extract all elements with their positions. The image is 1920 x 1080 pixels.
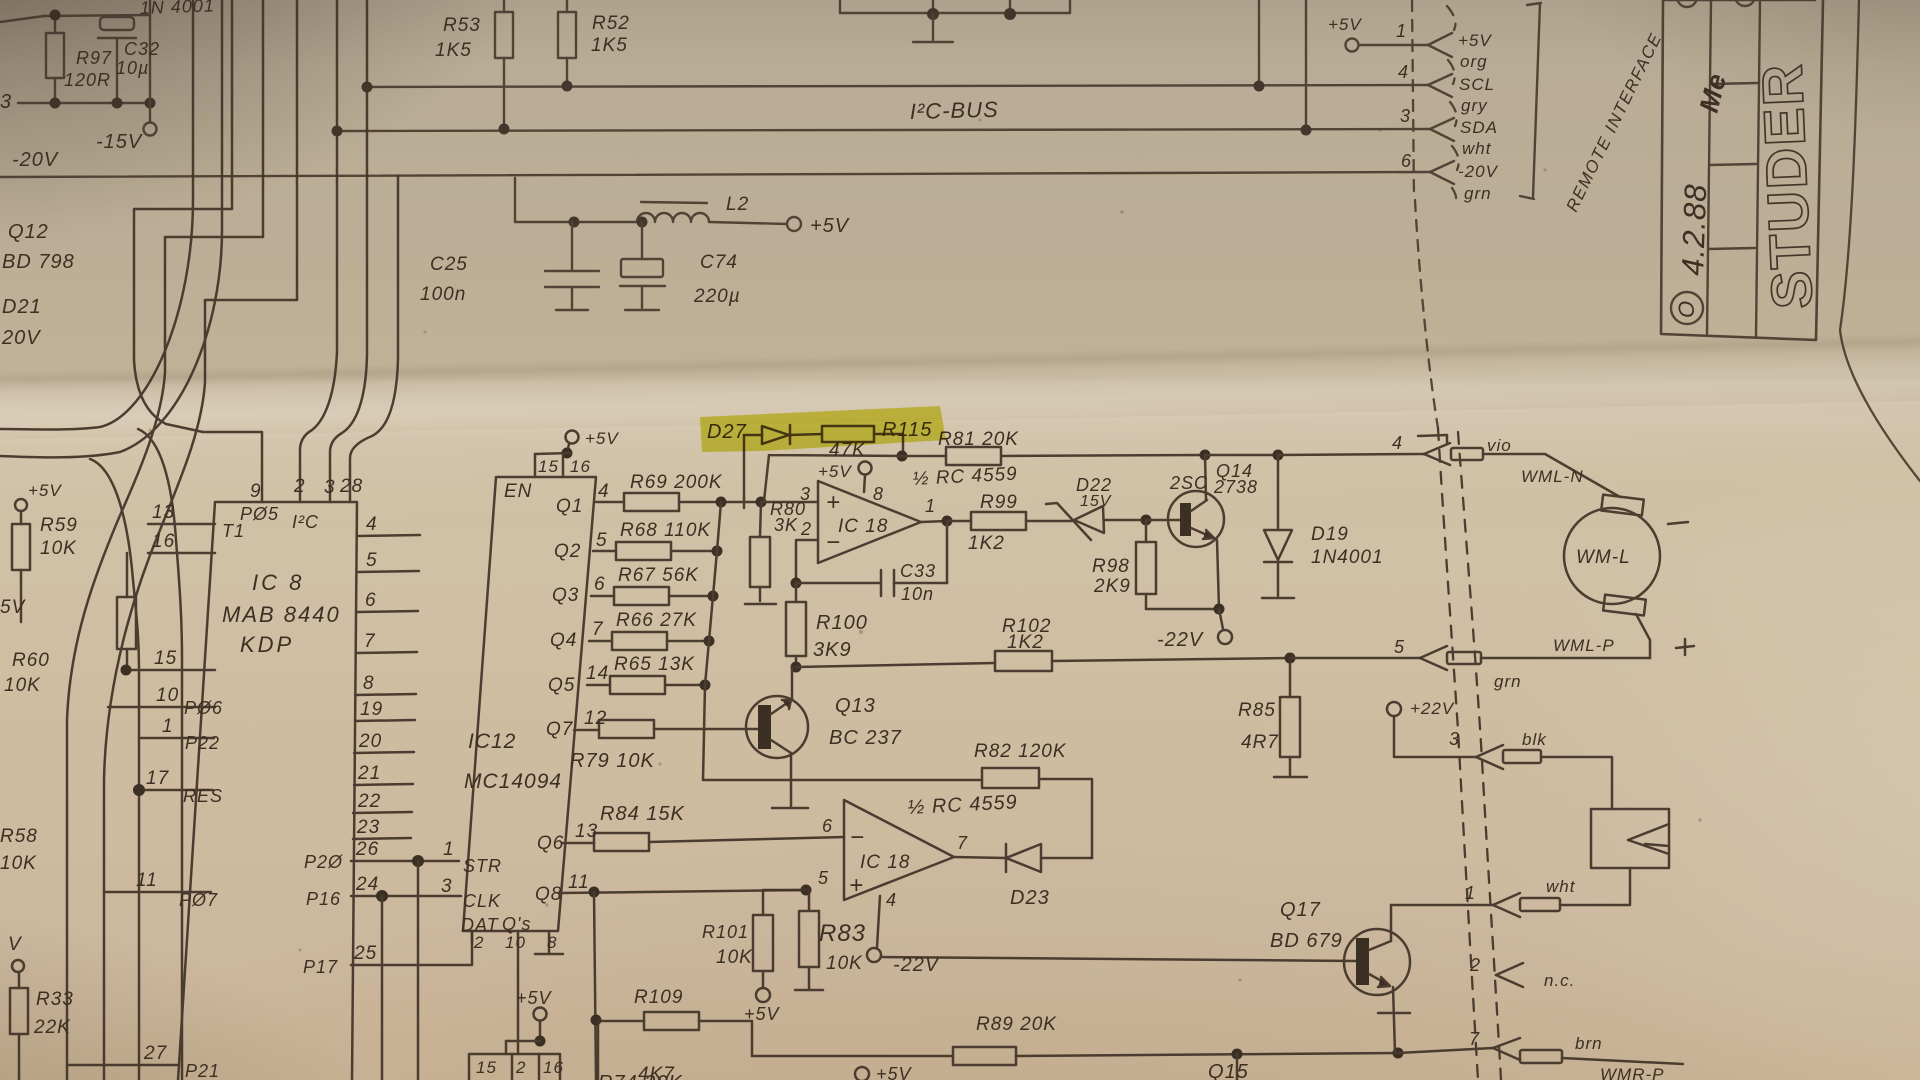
inductor L2	[641, 202, 707, 203]
motor WM-L	[1601, 495, 1644, 516]
svg-text:4: 4	[886, 890, 897, 910]
svg-text:120R: 120R	[64, 70, 111, 90]
resistor R99	[947, 520, 971, 523]
svg-text:R97: R97	[76, 48, 112, 68]
svg-text:-22V: -22V	[1157, 629, 1204, 651]
svg-text:4: 4	[598, 481, 610, 502]
svg-text:STR: STR	[463, 856, 502, 876]
svg-text:23: 23	[356, 817, 380, 838]
svg-text:R67 56K: R67 56K	[618, 565, 699, 586]
svg-text:6: 6	[822, 816, 833, 836]
svg-text:R66 27K: R66 27K	[616, 610, 697, 631]
svg-text:−: −	[850, 824, 865, 851]
paper specks	[149, 119, 1702, 982]
resistor R100	[786, 602, 806, 656]
wire R102 line to pin 5	[796, 663, 995, 667]
svg-text:20: 20	[358, 731, 382, 752]
IC8 pin 24 line P16 to IC12 CLK	[351, 895, 461, 898]
svg-text:SDA: SDA	[1460, 118, 1498, 137]
title block divider 1	[1707, 0, 1711, 335]
svg-text:R101: R101	[702, 922, 749, 942]
svg-text:C74: C74	[700, 252, 738, 273]
svg-text:2: 2	[473, 933, 484, 952]
IC8 pin 10 stub P06	[108, 706, 215, 709]
top-center box bottom with grounds	[839, 0, 841, 13]
wire I2C bus line 1 (SCL rail)	[367, 85, 1428, 87]
svg-text:IC12: IC12	[468, 730, 516, 753]
svg-text:2K9: 2K9	[1093, 576, 1131, 597]
svg-text:13: 13	[152, 502, 175, 523]
svg-text:6: 6	[365, 590, 377, 611]
wire staircase W1 to IC8 pin 9	[134, 0, 262, 502]
switch box (motor limit)	[1591, 809, 1669, 868]
resistor R28	[117, 597, 136, 649]
svg-text:2SC: 2SC	[1169, 473, 1208, 493]
svg-text:4.2.88: 4.2.88	[1675, 183, 1713, 276]
svg-text:+22V: +22V	[1410, 699, 1455, 718]
ground (R83)	[795, 989, 823, 992]
svg-text:3K9: 3K9	[813, 639, 852, 661]
svg-text:1: 1	[925, 496, 936, 516]
svg-text:2: 2	[800, 519, 812, 539]
svg-text:7: 7	[1469, 1029, 1480, 1049]
svg-text:16: 16	[152, 531, 175, 552]
connector pin 7 brn	[1493, 1038, 1520, 1048]
IC8 pin 27 stub P21	[67, 1064, 179, 1067]
svg-text:D22: D22	[1076, 475, 1112, 495]
svg-text:12: 12	[584, 708, 607, 729]
svg-text:R98: R98	[1092, 556, 1130, 577]
svg-text:wht: wht	[1462, 139, 1492, 158]
svg-text:O: O	[1674, 300, 1699, 318]
wire -20V rail to pin 6	[0, 172, 1430, 177]
svg-text:100n: 100n	[420, 284, 466, 305]
node +22V terminal	[1387, 702, 1401, 716]
svg-text:PØ5: PØ5	[240, 504, 279, 524]
title block revision circle O	[1671, 292, 1703, 324]
svg-text:n.c.: n.c.	[1544, 971, 1575, 990]
svg-text:+: +	[826, 489, 841, 516]
wire op2 pin 5 node	[763, 890, 806, 915]
node -22V terminal (Q14)	[1219, 609, 1223, 629]
svg-text:R89 20K: R89 20K	[976, 1014, 1057, 1035]
ground (C25)	[556, 309, 588, 311]
svg-text:8: 8	[873, 484, 884, 504]
wire top-left to R97	[0, 16, 44, 22]
svg-text:3: 3	[1400, 106, 1411, 126]
ground (top-center)	[932, 14, 934, 40]
svg-text:1K5: 1K5	[435, 40, 472, 61]
svg-text:5V: 5V	[0, 597, 27, 618]
svg-text:STUDER: STUDER	[1750, 61, 1825, 310]
svg-text:2738: 2738	[1213, 477, 1258, 497]
resistor R67	[591, 595, 614, 598]
svg-text:15: 15	[476, 1058, 497, 1077]
ground (R80)	[745, 603, 776, 606]
svg-text:wht: wht	[1546, 877, 1576, 896]
svg-text:R84 15K: R84 15K	[600, 803, 685, 825]
svg-text:3K: 3K	[774, 515, 798, 535]
svg-text:BD 679: BD 679	[1270, 930, 1343, 952]
svg-text:R59: R59	[40, 515, 78, 536]
svg-text:R79 10K: R79 10K	[570, 750, 655, 772]
node +5V (Q15 area)	[855, 1067, 869, 1080]
svg-text:4: 4	[366, 514, 378, 535]
svg-text:I²C: I²C	[292, 512, 319, 532]
svg-text:Q3: Q3	[552, 585, 579, 606]
wire vertical to left edge line D	[0, 0, 222, 1080]
IC8 right pin stubs 4,5,6,7,8,19,20,21,22,23	[357, 535, 420, 536]
IC8 pin 15 stub	[126, 669, 215, 672]
svg-text:13: 13	[575, 821, 598, 842]
svg-text:+5V: +5V	[810, 215, 850, 237]
resistor R53	[495, 12, 513, 58]
svg-text:26: 26	[355, 839, 379, 860]
svg-text:+5V: +5V	[585, 429, 619, 448]
svg-text:22: 22	[357, 791, 381, 812]
capacitor C25	[571, 222, 573, 271]
svg-text:Q7: Q7	[546, 719, 574, 740]
svg-text:15V: 15V	[1080, 493, 1112, 510]
svg-text:R85: R85	[1238, 700, 1276, 721]
svg-text:R99: R99	[980, 492, 1018, 513]
svg-text:8: 8	[363, 673, 375, 694]
dashed board edge lines	[1438, 428, 1501, 1080]
wire W2 to IC8 pin 2	[300, 0, 337, 502]
resistor R33	[18, 972, 21, 988]
svg-text:-20V: -20V	[1458, 162, 1499, 181]
svg-text:R53: R53	[443, 15, 481, 36]
svg-text:BC 237: BC 237	[829, 727, 902, 749]
wire sweep A to bottom left	[67, 0, 263, 1080]
svg-text:org: org	[1460, 52, 1488, 71]
svg-text:Q's: Q's	[502, 914, 531, 934]
resistor R97	[46, 33, 64, 78]
svg-text:MC14094: MC14094	[464, 770, 562, 793]
svg-text:10K: 10K	[716, 947, 753, 968]
svg-text:Q5: Q5	[548, 675, 575, 696]
resistor R69	[596, 501, 624, 504]
IC12 pin 2 DAT elbow	[471, 931, 474, 942]
connector pin 2 n.c.	[1496, 963, 1523, 975]
title block row lines	[1710, 83, 1757, 84]
svg-text:Q15: Q15	[1208, 1061, 1249, 1080]
svg-text:R74 20K: R74 20K	[598, 1072, 683, 1080]
wire vertical to left edge line C	[0, 0, 193, 1080]
connector REMOTE pin 1 +5V	[1346, 39, 1359, 52]
title block outer frame	[1661, 0, 1823, 340]
svg-text:7: 7	[957, 833, 968, 853]
resistor R68	[593, 550, 616, 553]
svg-text:+5V: +5V	[1458, 31, 1492, 50]
svg-text:3: 3	[1449, 729, 1460, 749]
svg-text:4: 4	[1398, 62, 1409, 82]
connector dashed body	[1412, 0, 1459, 428]
svg-text:1K2: 1K2	[968, 533, 1005, 554]
svg-text:8: 8	[547, 933, 557, 952]
IC12 +5V top bracket pins 15/16	[566, 431, 579, 444]
svg-text:DAT: DAT	[461, 915, 500, 935]
capacitor C74 (electrolytic)	[641, 222, 643, 259]
connector pin 3 blk	[1476, 745, 1503, 757]
svg-text:T1: T1	[222, 521, 245, 541]
svg-text:220µ: 220µ	[693, 286, 741, 307]
svg-text:P21: P21	[185, 1061, 220, 1080]
resistor R83	[808, 890, 811, 911]
svg-text:grn: grn	[1464, 184, 1492, 203]
svg-text:15: 15	[538, 457, 559, 476]
svg-text:Q12: Q12	[8, 221, 49, 243]
svg-text:9: 9	[250, 481, 262, 502]
svg-text:R52: R52	[592, 13, 630, 34]
svg-text:R83: R83	[819, 920, 866, 947]
wire I2C bus line 2 (SDA rail)	[337, 129, 1430, 131]
wire Q8 pin 11 line	[560, 890, 806, 893]
zener D22	[1074, 506, 1104, 533]
wire L2 left to C25/C74	[515, 221, 637, 223]
svg-text:P2Ø: P2Ø	[304, 852, 343, 872]
resistor R109	[598, 1020, 644, 1023]
svg-text:R69 200K: R69 200K	[630, 472, 723, 493]
svg-text:V: V	[8, 934, 23, 955]
tiny circle top row	[1677, 0, 1697, 7]
minus plus marks	[1668, 522, 1688, 524]
svg-text:1K2: 1K2	[1007, 632, 1044, 653]
op2 output diode D23	[954, 857, 1006, 858]
wire W3 to IC8 pin 3	[330, 0, 367, 502]
svg-text:10µ: 10µ	[116, 58, 149, 78]
svg-text:C32: C32	[124, 39, 160, 59]
svg-text:1: 1	[162, 716, 174, 737]
svg-text:10: 10	[505, 933, 526, 952]
svg-text:7: 7	[592, 619, 604, 640]
svg-text:MAB 8440: MAB 8440	[222, 602, 341, 627]
svg-text:10K: 10K	[4, 675, 41, 696]
svg-text:6: 6	[594, 574, 606, 595]
svg-text:½ RC 4559: ½ RC 4559	[907, 791, 1018, 819]
svg-text:CLK: CLK	[463, 891, 501, 911]
svg-text:10n: 10n	[901, 584, 934, 604]
svg-text:P22: P22	[185, 733, 220, 753]
svg-text:R58: R58	[0, 826, 38, 847]
svg-text:+5V: +5V	[876, 1064, 913, 1080]
svg-text:+5V: +5V	[818, 462, 852, 481]
wire R82 line	[703, 779, 982, 782]
resistor R102	[995, 651, 1052, 671]
svg-text:3: 3	[324, 477, 336, 498]
svg-text:5: 5	[1394, 637, 1405, 657]
svg-text:KDP: KDP	[240, 632, 294, 657]
svg-text:grn: grn	[1494, 672, 1522, 691]
wire junction row under R97/C32	[18, 102, 150, 104]
svg-text:4R7: 4R7	[1241, 732, 1279, 753]
svg-text:P16: P16	[306, 889, 341, 909]
svg-text:+5V: +5V	[1328, 15, 1362, 34]
svg-text:Q13: Q13	[835, 695, 876, 717]
svg-text:D23: D23	[1010, 887, 1050, 909]
svg-text:10: 10	[156, 685, 179, 706]
svg-text:IC 8: IC 8	[252, 570, 304, 595]
resistor R82	[982, 768, 1039, 788]
svg-text:Q17: Q17	[1280, 899, 1321, 921]
wire W4 to IC8 pin 28	[350, 176, 398, 502]
IC12 pin 10 drop	[517, 931, 520, 1054]
IC box below IC12 pins 15/2/16	[469, 1054, 560, 1080]
svg-text:1N 4001: 1N 4001	[139, 0, 215, 18]
svg-text:WM-L: WM-L	[1576, 547, 1631, 568]
svg-text:Q1: Q1	[556, 496, 583, 517]
svg-text:L2: L2	[726, 194, 749, 215]
IC8 pin 16 stub	[148, 552, 215, 555]
capacitor C33	[791, 578, 802, 589]
svg-text:blk: blk	[1522, 730, 1547, 749]
svg-text:28: 28	[339, 476, 363, 497]
connector pin 6 -20V	[1430, 161, 1454, 172]
resistor R84	[563, 842, 594, 845]
diode D19	[1277, 455, 1280, 530]
svg-text:Q2: Q2	[554, 541, 581, 562]
connector pin 5 grn	[1420, 646, 1447, 658]
svg-text:1N4001: 1N4001	[1311, 547, 1384, 568]
svg-text:-22V: -22V	[893, 954, 940, 976]
wire summing rail down to R82 line	[703, 502, 721, 780]
svg-text:gry: gry	[1461, 96, 1488, 115]
svg-text:3: 3	[0, 91, 12, 113]
svg-text:1: 1	[1465, 883, 1476, 903]
svg-text:WMR-P: WMR-P	[1600, 1065, 1664, 1080]
svg-text:16: 16	[543, 1058, 564, 1077]
svg-text:WML-P: WML-P	[1553, 636, 1615, 655]
svg-text:+: +	[849, 872, 864, 899]
svg-text:1: 1	[443, 839, 455, 860]
resistor R101	[753, 915, 773, 971]
ground (Q13 emitter)	[790, 780, 793, 806]
resistor R66	[589, 640, 612, 643]
connector pin 1 wht	[1493, 893, 1520, 905]
svg-text:P17: P17	[303, 957, 338, 977]
op-amp U IC18b	[844, 800, 954, 900]
svg-text:R33: R33	[36, 989, 74, 1010]
svg-text:15: 15	[154, 648, 177, 669]
ground (R85)	[1274, 776, 1307, 779]
svg-text:brn: brn	[1575, 1034, 1603, 1053]
svg-text:Me: Me	[1694, 70, 1733, 116]
svg-text:7: 7	[364, 631, 376, 652]
svg-text:10K: 10K	[0, 853, 37, 874]
svg-text:Q8: Q8	[535, 884, 562, 905]
resistor R89	[953, 1047, 1016, 1065]
svg-text:+5V: +5V	[516, 988, 553, 1008]
svg-text:14: 14	[586, 663, 609, 684]
wire L2 to +5V terminal	[709, 222, 787, 224]
svg-text:D19: D19	[1311, 524, 1349, 545]
svg-text:Q4: Q4	[550, 630, 577, 651]
svg-text:24: 24	[355, 874, 379, 895]
svg-text:5: 5	[366, 550, 378, 571]
svg-text:-15V: -15V	[96, 131, 143, 153]
svg-text:R82 120K: R82 120K	[974, 741, 1067, 762]
svg-text:11: 11	[568, 872, 590, 893]
svg-text:19: 19	[360, 699, 383, 720]
svg-text:IC 18: IC 18	[860, 852, 910, 873]
svg-text:R65 13K: R65 13K	[614, 654, 695, 675]
svg-text:10K: 10K	[826, 953, 863, 974]
node +5V R33 terminal	[12, 960, 24, 972]
svg-text:20V: 20V	[1, 327, 41, 349]
IC8 pin 26 line P20 to IC12 STR	[351, 860, 418, 863]
op-amp output node	[921, 521, 947, 522]
IC IC12 box MC14094	[463, 477, 596, 931]
svg-text:17: 17	[146, 768, 170, 789]
svg-text:27: 27	[143, 1043, 168, 1064]
resistor R81 20K	[902, 455, 946, 458]
connector pin 4 SCL	[1428, 74, 1452, 85]
svg-text:PØ7: PØ7	[179, 890, 218, 910]
svg-text:EN: EN	[504, 481, 532, 502]
svg-text:2: 2	[293, 476, 306, 497]
node +5V terminal (L2)	[787, 217, 801, 231]
node SCL vertical drop	[1258, 0, 1260, 86]
connector pin 3 SDA	[1430, 118, 1454, 129]
ground (C74)	[625, 309, 659, 311]
wire R81 node line	[897, 451, 908, 462]
IC8 pin 13 stub	[148, 523, 215, 526]
svg-text:2: 2	[1469, 955, 1481, 975]
transistor Q14	[1168, 491, 1224, 547]
connector pin 4 vio	[1424, 443, 1450, 454]
resistor R79	[574, 729, 599, 732]
resistor R65	[587, 684, 610, 687]
svg-text:Q6: Q6	[537, 833, 564, 854]
yellow highlighter mark	[700, 406, 946, 452]
op-amp U IC18a	[818, 481, 921, 563]
text labels top section	[0, 0, 1732, 349]
svg-text:22K: 22K	[33, 1017, 71, 1038]
node -22V terminal (op2 pin4)	[877, 896, 880, 947]
bracket REMOTE INTERFACE	[1533, 3, 1540, 197]
sheet border curve right	[1840, 0, 1920, 481]
resistor R115 47K	[790, 434, 822, 435]
svg-text:R68 110K: R68 110K	[620, 520, 711, 541]
capacitor C32 (electrolytic)	[100, 17, 134, 30]
node +5V op-amp pin 8	[859, 462, 872, 475]
transistor Q13	[746, 696, 808, 758]
ground (D19)	[1262, 597, 1294, 600]
IC12 pin 8 stub + bar	[548, 931, 551, 952]
resistor R80	[750, 537, 770, 587]
svg-text:D21: D21	[2, 296, 42, 318]
svg-text:BD 798: BD 798	[2, 251, 75, 273]
svg-text:WML-N: WML-N	[1521, 467, 1584, 486]
svg-text:SCL: SCL	[1459, 75, 1495, 94]
svg-text:6: 6	[1401, 151, 1412, 171]
ground bar (Q17 emitter)	[1378, 1012, 1410, 1015]
svg-text:5: 5	[596, 530, 608, 551]
svg-text:5: 5	[818, 868, 829, 888]
svg-text:vio: vio	[1487, 436, 1512, 455]
svg-text:½ RC 4559: ½ RC 4559	[912, 464, 1018, 490]
svg-text:R109: R109	[634, 987, 683, 1008]
wire R89 line	[752, 1055, 953, 1058]
resistor R85	[1289, 658, 1292, 697]
svg-text:+5V: +5V	[28, 481, 62, 500]
svg-text:16: 16	[570, 457, 591, 476]
resistor R59	[15, 499, 27, 511]
resistor R98	[1145, 520, 1148, 542]
IC8 pin 1 stub P22	[139, 737, 214, 740]
svg-text:4: 4	[1392, 433, 1403, 453]
node SDA vertical drop	[1305, 0, 1307, 130]
